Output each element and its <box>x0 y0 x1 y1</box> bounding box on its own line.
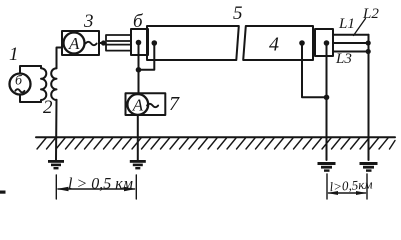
svg-text:L1: L1 <box>338 16 355 32</box>
svg-text:7: 7 <box>169 93 180 115</box>
line L1 <box>333 34 369 36</box>
svg-text:б: б <box>133 11 144 32</box>
junction dot at link bars <box>101 40 106 45</box>
label 1 <box>9 44 19 65</box>
cable sheath right section <box>243 26 313 60</box>
terminal dot in cable right end <box>299 40 305 46</box>
dimension extension line left A <box>55 175 57 199</box>
svg-text:L3: L3 <box>335 51 352 67</box>
terminal dot in right coupling <box>324 40 330 46</box>
wire secondary top to ammeter 3 <box>57 48 63 69</box>
wire coupling to ground <box>326 43 328 160</box>
label 7 <box>169 93 180 115</box>
svg-text:б: б <box>15 74 23 89</box>
dimension extension line right B <box>366 174 368 199</box>
junction dot L2 <box>366 40 371 45</box>
junction dot right <box>324 95 330 101</box>
svg-text:l > 0,5 км: l > 0,5 км <box>68 176 133 193</box>
wire sheath dot down and right <box>302 43 327 97</box>
label L3 <box>335 51 352 67</box>
generator G box <box>20 66 41 102</box>
ground electrode right coupling <box>318 162 336 172</box>
label 3 <box>83 11 94 32</box>
dimension text right <box>329 176 373 194</box>
svg-text:A: A <box>132 96 144 115</box>
label 2 <box>43 97 53 118</box>
ground electrode left (transformer) <box>48 160 64 169</box>
label 6 <box>133 11 144 32</box>
earth surface line <box>36 136 395 138</box>
terminal dot in cable left end <box>152 40 158 46</box>
dimension extension line left B <box>135 175 137 199</box>
ammeter A3 box <box>62 31 99 55</box>
coupling box 6 <box>131 29 148 55</box>
ammeter A7 tilde <box>147 104 158 107</box>
dimension line right with arrows <box>327 191 367 195</box>
transformer T primary winding <box>41 66 46 102</box>
ammeter A3 circle <box>64 33 85 54</box>
dimension line left with arrows <box>57 187 137 191</box>
wire box6 dot down to ammeter 7 <box>138 43 140 94</box>
leader line L2 <box>354 19 366 36</box>
junction dot <box>136 67 142 73</box>
earth hatching <box>37 138 395 149</box>
wire cable-end dot step to junction <box>139 43 155 70</box>
wire ammeter 7 to ground <box>137 115 139 160</box>
cable sheath left section <box>147 26 239 60</box>
svg-text:1: 1 <box>9 44 19 65</box>
dimension text left <box>68 176 133 193</box>
ground electrode ammeter 7 <box>130 160 146 169</box>
label L2 <box>362 6 379 22</box>
wire L short to ground <box>368 35 370 160</box>
svg-text:A: A <box>68 34 80 53</box>
generator G circle symbol <box>10 74 31 95</box>
dimension extension line right A <box>326 174 328 199</box>
label 5 <box>233 3 243 24</box>
artifact mark bottom left <box>0 191 6 194</box>
ammeter A3 tilde <box>86 42 97 45</box>
svg-text:3: 3 <box>83 11 94 32</box>
line L2 <box>333 42 369 44</box>
label L1 <box>338 16 355 32</box>
wire ammeter 3 to link bars <box>99 42 106 44</box>
transformer T secondary winding <box>51 68 56 100</box>
wire secondary bottom to ground <box>55 100 58 160</box>
svg-text:5: 5 <box>233 3 243 24</box>
ground electrode far right <box>360 162 378 172</box>
label 4 <box>269 34 279 56</box>
ammeter A7 box <box>126 93 166 115</box>
link bar lower <box>106 45 131 51</box>
line L3 <box>333 51 369 53</box>
svg-text:2: 2 <box>43 97 53 118</box>
junction dot L3 <box>366 49 371 54</box>
terminal dot in box 6 <box>136 40 142 46</box>
coupling box right <box>315 29 333 56</box>
svg-text:l>0,5км: l>0,5км <box>329 176 373 194</box>
svg-text:4: 4 <box>269 34 279 56</box>
link bar upper <box>106 35 131 41</box>
ammeter A7 circle <box>127 94 148 115</box>
